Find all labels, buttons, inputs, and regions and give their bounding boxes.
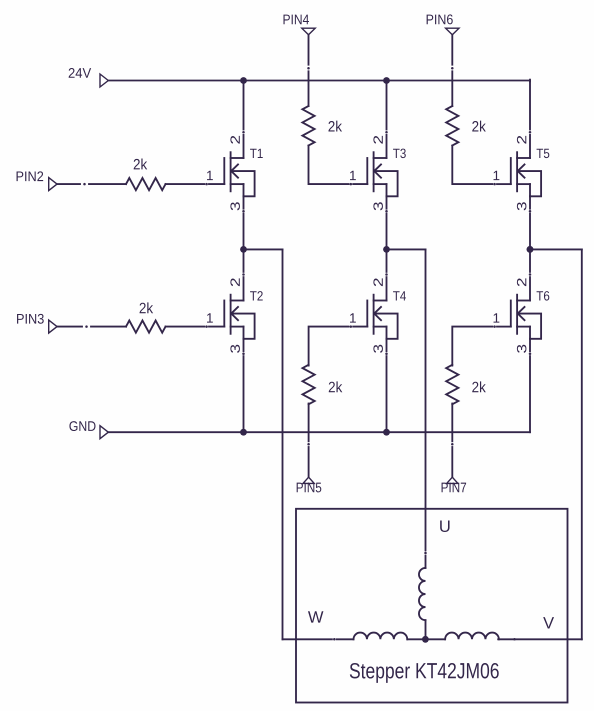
T3 pin 3 label bbox=[373, 202, 383, 210]
output arrow PIN7 bbox=[447, 477, 458, 483]
input arrow GND bbox=[100, 426, 108, 439]
T3 pin 1 label bbox=[350, 171, 356, 180]
T4 pin 2 label bbox=[373, 278, 382, 286]
wire U coil to star point bbox=[425, 620, 427, 639]
wire GND rail bbox=[108, 431, 530, 433]
wire PIN4 down bbox=[307, 35, 310, 106]
T3 pin 2 label bbox=[373, 136, 382, 144]
T6 pin 1 label bbox=[494, 313, 500, 322]
wire 24V rail to T1 drain bbox=[242, 81, 245, 159]
wire V coil to star point bbox=[425, 638, 445, 640]
wire midpoint to T6 drain bbox=[529, 249, 532, 300]
input arrow PIN4 bbox=[302, 28, 315, 35]
input arrow 24V bbox=[100, 74, 108, 87]
transistor T1 (high-side MOSFET) bbox=[224, 152, 254, 196]
wire 24V rail bbox=[108, 80, 530, 82]
input arrow PIN6 bbox=[446, 28, 459, 35]
T1 pin 3 label bbox=[230, 202, 240, 210]
wire midpoint to T2 drain bbox=[242, 249, 245, 300]
wire T1 source to midpoint bbox=[242, 196, 245, 249]
inductor winding W bbox=[354, 633, 408, 640]
net label PIN3 bbox=[17, 314, 44, 324]
wire T6 gate to R6 bbox=[452, 325, 511, 365]
wire R2 to T2 gate bbox=[166, 325, 225, 328]
T5 pin 3 label bbox=[517, 202, 527, 210]
wire R4 to T5 gate bbox=[452, 146, 511, 186]
junction star point U/V/W bbox=[422, 636, 429, 643]
wire phase V into motor bbox=[498, 638, 582, 641]
T2 pin 2 label bbox=[230, 278, 239, 286]
wire T3 source to midpoint bbox=[385, 196, 388, 249]
output arrow PIN5 bbox=[303, 477, 314, 483]
value label 2k R6 bbox=[472, 381, 486, 392]
junction 24V/T1 drain bbox=[240, 77, 247, 84]
wire PIN3 to R2 bbox=[57, 325, 126, 328]
junction node midpoint T1/T2 bbox=[240, 246, 247, 253]
wire R5 to PIN5 bbox=[307, 404, 310, 478]
wire R1 to T1 gate bbox=[166, 183, 225, 186]
resistor R3 2k (PIN4-T3 gate) bbox=[302, 106, 314, 146]
transistor T4 (low-side MOSFET) bbox=[367, 295, 397, 339]
label T1 bbox=[250, 149, 263, 158]
junction GND/T4 source bbox=[383, 429, 390, 436]
wire node V takeoff bbox=[530, 248, 582, 250]
resistor R5 2k (T4 gate-PIN5) bbox=[303, 365, 315, 405]
label T2 bbox=[250, 291, 263, 300]
wire node W takeoff bbox=[244, 248, 283, 250]
transistor T6 (low-side MOSFET) bbox=[511, 295, 541, 339]
net label PIN5 bbox=[297, 483, 322, 493]
motor label Stepper KT42JM06 bbox=[350, 663, 499, 683]
junction node midpoint T3/T4 bbox=[383, 246, 390, 253]
resistor R6 2k (T6 gate-PIN7) bbox=[446, 365, 458, 405]
T5 pin 2 label bbox=[517, 136, 526, 144]
T6 pin 2 label bbox=[517, 278, 526, 286]
junction GND/T2 source bbox=[240, 429, 247, 436]
motor M1 outline box bbox=[296, 509, 568, 703]
wire phase V vertical bbox=[581, 249, 583, 639]
wire R6 to PIN7 bbox=[451, 404, 454, 478]
wire 24V rail to T3 drain bbox=[385, 81, 388, 159]
wire midpoint to T4 drain bbox=[385, 249, 388, 300]
resistor R4 2k (PIN6-T5 gate) bbox=[446, 106, 458, 146]
value label 2k R2 bbox=[140, 302, 154, 313]
label T6 bbox=[537, 291, 550, 301]
input arrow PIN2 bbox=[49, 178, 57, 191]
wire W coil to star point bbox=[407, 638, 425, 640]
wire PIN2 to R1 bbox=[57, 183, 126, 186]
wire T5 source to midpoint bbox=[529, 196, 532, 249]
transistor T5 (high-side MOSFET) bbox=[511, 152, 541, 196]
wire PIN6 down bbox=[451, 35, 454, 106]
value label 2k R3 bbox=[328, 121, 342, 132]
terminal label V bbox=[543, 617, 554, 628]
net label PIN2 bbox=[17, 171, 44, 181]
net label 24V bbox=[69, 68, 91, 78]
wire phase W vertical bbox=[282, 249, 284, 639]
wire node U takeoff bbox=[387, 248, 426, 250]
wire phase U vertical bbox=[424, 249, 427, 568]
T4 pin 3 label bbox=[373, 345, 383, 353]
junction node midpoint T5/T6 bbox=[527, 246, 534, 253]
net label PIN4 bbox=[283, 15, 308, 25]
net label PIN6 bbox=[427, 14, 453, 24]
T1 pin 2 label bbox=[230, 136, 239, 144]
wire T2 source to GND rail bbox=[242, 339, 245, 432]
terminal label U bbox=[440, 521, 449, 533]
wire phase W into motor bbox=[283, 638, 354, 641]
T2 pin 3 label bbox=[230, 345, 240, 353]
wire T6 source to GND rail bbox=[529, 339, 532, 432]
value label 2k R4 bbox=[472, 121, 486, 132]
label T5 bbox=[537, 149, 550, 158]
inductor winding V bbox=[445, 633, 499, 640]
net label PIN7 bbox=[442, 483, 467, 493]
value label 2k R1 bbox=[134, 159, 148, 170]
junction 24V/T3 drain bbox=[383, 77, 390, 84]
label T3 bbox=[393, 149, 406, 159]
T6 pin 3 label bbox=[517, 345, 527, 353]
net label GND bbox=[69, 421, 95, 431]
resistor R2 2k (PIN3-T2 gate) bbox=[126, 321, 166, 333]
terminal label W bbox=[308, 611, 323, 622]
resistor R1 2k (PIN2-T1 gate) bbox=[126, 178, 166, 190]
transistor T3 (high-side MOSFET) bbox=[367, 152, 397, 196]
wire corner 24V rail to T5 bbox=[529, 80, 531, 82]
T4 pin 1 label bbox=[350, 313, 356, 322]
wire T4 gate to R5 bbox=[309, 325, 368, 365]
transistor T2 (low-side MOSFET) bbox=[224, 295, 254, 339]
T1 pin 1 label bbox=[207, 171, 213, 180]
wire 24V rail to T5 drain bbox=[529, 81, 532, 159]
inductor winding U bbox=[419, 568, 426, 620]
T2 pin 1 label bbox=[207, 313, 213, 322]
wire R3 to T3 gate bbox=[309, 146, 368, 186]
T5 pin 1 label bbox=[494, 171, 500, 180]
value label 2k R5 bbox=[329, 381, 343, 392]
junction node V at T5/T6 bbox=[527, 246, 534, 253]
label T4 bbox=[393, 291, 406, 300]
wire T4 source to GND rail bbox=[385, 339, 388, 432]
input arrow PIN3 bbox=[49, 320, 57, 333]
